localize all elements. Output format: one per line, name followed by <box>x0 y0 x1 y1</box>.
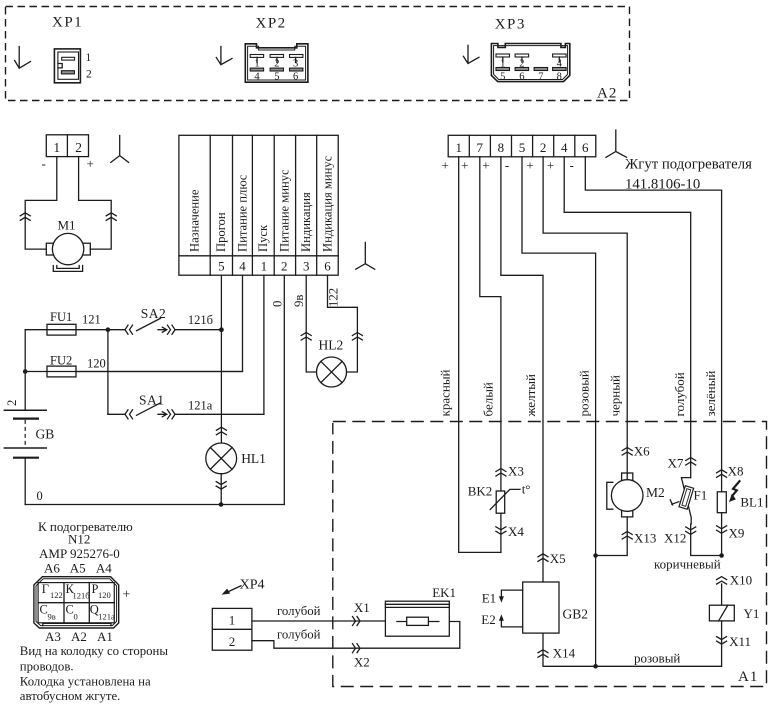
svg-text:E2: E2 <box>481 612 495 627</box>
XP1 terminal slot 1 <box>62 57 75 60</box>
wire from junction down to SA1 <box>107 330 109 415</box>
svg-text:X11: X11 <box>729 634 751 649</box>
heater element EK1 resistor <box>397 621 439 623</box>
node X3 chevrons <box>496 469 506 477</box>
XP3 terminal 4 <box>553 54 567 57</box>
switch SA2 <box>108 329 125 331</box>
junction dot wire 121б at pin5 wire <box>219 327 224 332</box>
svg-text:X14: X14 <box>553 646 576 661</box>
wire XP4 pin1 голубой to EK1 <box>252 620 386 622</box>
svg-text:Г: Г <box>42 582 49 596</box>
module A2 dashed boundary <box>6 7 630 101</box>
svg-text:желтый: желтый <box>523 374 538 417</box>
node X10 chevrons <box>717 577 727 585</box>
svg-text:А5: А5 <box>70 561 86 576</box>
svg-text:XP3: XP3 <box>495 17 526 33</box>
electrode E2 arrow <box>501 619 522 627</box>
svg-text:Назначение: Назначение <box>187 189 201 252</box>
svg-text:А4: А4 <box>96 561 112 576</box>
wire 0 bus <box>25 504 284 506</box>
svg-text:0: 0 <box>37 489 43 503</box>
svg-text:Колодка установлена на: Колодка установлена на <box>20 675 151 689</box>
XP3 terminal 7 <box>534 68 548 71</box>
svg-text:AMP 925276-0: AMP 925276-0 <box>39 546 120 561</box>
connector XP1 mating arrow <box>15 47 31 69</box>
wire BK2 to красный <box>500 513 502 552</box>
svg-text:X7: X7 <box>668 456 684 471</box>
svg-text:1: 1 <box>53 140 60 155</box>
connector chevrons on M1 left wire <box>20 213 30 221</box>
svg-text:120: 120 <box>87 357 106 371</box>
wire battery negative lead to 0 bus <box>24 458 26 505</box>
svg-text:+: + <box>442 158 449 173</box>
svg-text:2: 2 <box>540 140 547 155</box>
wire table pin 5 (Прогон) down to lamp HL1 <box>220 275 222 443</box>
svg-text:Вид на колодку со стороны: Вид на колодку со стороны <box>20 644 169 658</box>
fuse FU2 <box>47 366 76 377</box>
XP3 terminal 1 <box>496 54 510 57</box>
junction dot HL1 on 0 bus <box>219 502 224 507</box>
svg-text:4: 4 <box>254 71 260 82</box>
svg-text:Индикация: Индикация <box>299 192 313 252</box>
motor M1 body <box>52 233 83 264</box>
svg-text:1: 1 <box>261 258 268 273</box>
module A1 dashed boundary <box>333 422 767 687</box>
connector chevrons on M1 right wire <box>106 213 116 221</box>
svg-text:X9: X9 <box>729 526 745 541</box>
svg-text:121а: 121а <box>188 399 213 413</box>
svg-text:0: 0 <box>271 301 285 307</box>
XP2 terminal 4 <box>250 68 263 71</box>
wire table pin 6 (Индикация минус) to lamp HL2 right, wire 122 <box>328 275 358 372</box>
svg-text:4: 4 <box>561 140 568 155</box>
svg-text:2: 2 <box>75 140 82 155</box>
svg-text:A2: A2 <box>597 86 617 102</box>
wire Y1 to розовый bus <box>596 621 722 666</box>
svg-text:2: 2 <box>5 400 19 406</box>
thermistor BK2 <box>496 491 505 513</box>
svg-text:1: 1 <box>455 140 462 155</box>
connector XP4 arrow <box>227 586 242 593</box>
svg-text:розовый: розовый <box>576 370 591 416</box>
svg-text:5: 5 <box>274 71 279 82</box>
node X1 chevrons <box>353 617 361 626</box>
svg-text:Пуск: Пуск <box>256 224 270 252</box>
svg-text:1: 1 <box>86 52 92 64</box>
wire pin1 красный <box>459 157 501 553</box>
svg-text:SA1: SA1 <box>139 393 165 408</box>
svg-text:t°: t° <box>522 482 531 497</box>
node X4 chevrons <box>496 527 506 535</box>
wire XP4 pin2 голубой to EK1 return <box>252 622 460 649</box>
svg-text:+: + <box>482 158 489 173</box>
svg-text:F1: F1 <box>694 488 708 503</box>
svg-text:X12: X12 <box>664 531 686 546</box>
svg-text:HL1: HL1 <box>241 451 266 466</box>
junction dot 121б on pin5 wire <box>219 327 224 332</box>
svg-text:А3: А3 <box>45 629 61 644</box>
connector block pins 1-2 for motor M1 <box>46 135 88 157</box>
wire M2 to розовый junction <box>596 517 628 556</box>
node X7 chevrons <box>686 458 696 466</box>
wire pin1 to motor M1 left <box>25 157 57 250</box>
svg-text:121б: 121б <box>73 591 90 601</box>
wire pin6 зелёный <box>585 157 721 492</box>
connector chevrons above lamp HL1 <box>216 427 226 435</box>
svg-text:2: 2 <box>281 258 288 273</box>
wire table pin 4 (Питание плюс) to fuse FU2 wire 120 <box>76 275 243 371</box>
connector chevrons on HL2 right wire <box>352 333 362 341</box>
node X13 chevrons <box>622 532 632 540</box>
XP3 terminal 2 <box>515 54 529 57</box>
junction dot розовый bottom <box>593 664 598 669</box>
svg-text:автобусном жгуте.: автобусном жгуте. <box>20 689 121 703</box>
XP3 terminal 8 <box>553 68 567 71</box>
electrode E1 arrow <box>501 590 522 598</box>
wire pin2 to motor M1 right <box>79 157 112 250</box>
battery GB plates <box>4 409 47 411</box>
svg-text:+: + <box>123 588 131 603</box>
svg-text:А1: А1 <box>97 629 113 644</box>
wire table pin 3 (Индикация) to lamp HL2 left, wire 9в <box>306 275 316 372</box>
svg-text:голубой: голубой <box>672 372 687 416</box>
motor M2 body <box>611 480 643 512</box>
svg-text:E1: E1 <box>482 591 496 606</box>
svg-text:X3: X3 <box>508 464 524 479</box>
connector XP3 body <box>491 44 569 82</box>
svg-text:7: 7 <box>477 140 484 155</box>
svg-text:X4: X4 <box>508 524 524 539</box>
svg-text:M2: M2 <box>646 485 665 500</box>
sensor BL1 body <box>717 492 726 513</box>
svg-text:X8: X8 <box>728 464 744 479</box>
svg-text:120: 120 <box>98 590 111 600</box>
XP1 key notch <box>58 64 62 68</box>
wire pin2 черный <box>543 157 627 481</box>
node X8 chevrons <box>717 470 727 478</box>
heater harness connector strip <box>448 135 596 157</box>
XP2 terminal 6 <box>290 68 303 71</box>
connector XP3 mating arrow <box>463 45 479 63</box>
connector XP1 body <box>54 49 80 83</box>
junction dot SA1/SA2 branch <box>106 327 111 332</box>
wire GB2 to pink bus <box>543 633 596 666</box>
wire pin8 желтый <box>501 157 543 582</box>
svg-text:красный: красный <box>437 369 452 416</box>
node X5 chevrons <box>538 554 548 562</box>
lamp HL2 <box>317 357 347 387</box>
sensor BL1 lightning arrow <box>732 480 741 496</box>
svg-text:X10: X10 <box>730 573 752 588</box>
svg-text:9в: 9в <box>292 295 306 307</box>
svg-text:M1: M1 <box>58 218 76 233</box>
svg-text:4: 4 <box>239 258 246 273</box>
svg-text:белый: белый <box>480 382 495 416</box>
svg-text:GB2: GB2 <box>563 607 589 622</box>
wire table pin 1 (Пуск) down to SA1 wire 121а <box>263 275 265 414</box>
svg-text:-: - <box>505 158 509 173</box>
svg-text:0: 0 <box>74 612 78 622</box>
svg-text:8: 8 <box>557 71 562 82</box>
twisted-pair symbol near M1 connector <box>111 136 129 163</box>
svg-text:черный: черный <box>608 375 623 416</box>
fuse FU1 <box>47 324 76 335</box>
svg-text:9в: 9в <box>48 612 56 622</box>
svg-text:BL1: BL1 <box>740 495 763 510</box>
node X2 chevrons <box>353 644 361 653</box>
wire F1 to коричневый junction <box>691 524 722 556</box>
svg-text:122: 122 <box>50 590 63 600</box>
svg-text:121: 121 <box>82 313 101 327</box>
svg-text:121б: 121б <box>188 313 213 327</box>
connector chevrons below lamp HL1 <box>216 482 226 490</box>
connector chevrons on HL2 left wire <box>301 333 311 341</box>
svg-text:3: 3 <box>303 258 310 273</box>
svg-text:6: 6 <box>293 71 298 82</box>
AMP pinout grid <box>38 583 114 623</box>
wire pin5 розовый <box>522 157 596 667</box>
XP1 terminal slot 2 <box>61 71 74 74</box>
junction dot battery to FU2 <box>23 369 28 374</box>
motor M1 brushes <box>46 243 54 255</box>
svg-text:HL2: HL2 <box>319 338 344 353</box>
svg-text:+: + <box>547 158 554 173</box>
signal name table <box>179 135 338 275</box>
svg-text:голубой: голубой <box>277 604 321 618</box>
svg-text:8: 8 <box>498 140 505 155</box>
svg-text:XP4: XP4 <box>240 578 265 593</box>
fuse F1 leads <box>681 478 691 524</box>
svg-text:GB: GB <box>36 427 55 442</box>
wire pin7 белый upper run <box>480 157 501 491</box>
svg-text:5: 5 <box>218 258 225 273</box>
node X12 chevrons <box>686 527 696 535</box>
XP2 terminal 5 <box>270 68 283 71</box>
svg-text:6: 6 <box>582 140 589 155</box>
svg-text:Питание минус: Питание минус <box>278 169 292 252</box>
node X6 chevrons <box>622 448 632 456</box>
junction dot розовый-черный <box>593 553 598 558</box>
svg-text:+: + <box>526 158 533 173</box>
svg-text:6: 6 <box>519 71 524 82</box>
svg-text:XP2: XP2 <box>256 16 287 32</box>
svg-text:+: + <box>461 158 468 173</box>
junction dot коричневый <box>719 553 724 558</box>
svg-text:A1: A1 <box>738 669 758 685</box>
fuse FU2 wire 120 <box>25 371 242 373</box>
wire table pin 2 (Питание минус) down to 0 bus <box>283 275 285 504</box>
svg-text:1: 1 <box>229 613 236 628</box>
fuse F1 side tick <box>670 500 679 505</box>
twisted-pair symbol right of table <box>356 242 375 269</box>
svg-text:Жгут подогревателя: Жгут подогревателя <box>625 157 752 173</box>
XP2 terminal 1 <box>250 55 263 58</box>
heater plug EK1 body <box>385 601 449 636</box>
connector XP2 body <box>245 44 308 82</box>
switch SA1 <box>125 410 133 419</box>
fuse FU1 wire 121 <box>25 329 108 331</box>
node X11 chevrons <box>717 637 727 645</box>
wire pin4 голубой <box>564 157 691 478</box>
lamp HL1 <box>206 443 237 474</box>
node X14 chevrons <box>538 650 548 658</box>
svg-text:5: 5 <box>500 71 505 82</box>
connector XP2 mating arrow <box>216 47 232 65</box>
svg-text:-: - <box>42 156 46 171</box>
svg-text:2: 2 <box>229 634 236 649</box>
svg-text:X1: X1 <box>354 600 370 615</box>
svg-text:коричневый: коричневый <box>654 557 721 572</box>
svg-text:2: 2 <box>86 69 92 81</box>
motor M1 mounting base <box>53 266 82 272</box>
svg-text:зелёный: зелёный <box>703 371 718 417</box>
svg-text:Прогон: Прогон <box>214 212 228 252</box>
connector XP4 body <box>212 608 252 650</box>
wire HL1 to 0 bus <box>220 474 222 505</box>
glow unit GB2 box <box>523 582 559 633</box>
svg-text:X13: X13 <box>634 531 656 546</box>
twisted-pair symbol right of pin strip <box>606 130 627 157</box>
svg-text:X5: X5 <box>550 551 566 566</box>
svg-text:XP1: XP1 <box>52 15 83 31</box>
svg-text:5: 5 <box>519 140 526 155</box>
svg-text:проводов.: проводов. <box>20 660 74 674</box>
svg-text:121а: 121а <box>98 612 115 622</box>
svg-text:Индикация минус: Индикация минус <box>320 155 334 252</box>
XP2 terminal 3 <box>290 55 303 58</box>
svg-text:-: - <box>570 158 574 173</box>
node X9 chevrons <box>717 526 727 534</box>
svg-text:Y1: Y1 <box>744 606 760 621</box>
svg-text:6: 6 <box>324 258 331 273</box>
svg-text:N12: N12 <box>68 532 90 547</box>
wire battery positive lead <box>24 330 26 411</box>
XP2 terminal 2 <box>270 55 283 58</box>
svg-text:FU2: FU2 <box>50 354 72 368</box>
svg-text:BK2: BK2 <box>468 484 493 499</box>
svg-text:+: + <box>87 156 94 171</box>
fuse F1 body <box>679 486 694 510</box>
svg-text:FU1: FU1 <box>50 310 72 324</box>
svg-text:122: 122 <box>327 288 341 307</box>
svg-text:EK1: EK1 <box>432 585 456 600</box>
motor M2 stator bracket <box>607 482 613 509</box>
AMP connector pinout body <box>34 577 119 628</box>
svg-text:розовый: розовый <box>634 651 680 666</box>
motor M2 brushes <box>622 473 633 480</box>
XP3 terminal 6 <box>515 68 529 71</box>
svg-text:Питание плюс: Питание плюс <box>235 174 249 252</box>
svg-text:А2: А2 <box>71 629 87 644</box>
valve Y1 <box>721 584 723 605</box>
svg-text:голубой: голубой <box>277 628 321 642</box>
wire BL1 to коричневый junction <box>721 513 723 556</box>
svg-text:SA2: SA2 <box>141 306 167 321</box>
XP3 terminal 5 <box>496 68 510 71</box>
svg-text:7: 7 <box>538 71 543 82</box>
svg-text:А6: А6 <box>44 561 60 576</box>
svg-text:X2: X2 <box>354 655 370 670</box>
svg-text:X6: X6 <box>634 444 650 459</box>
